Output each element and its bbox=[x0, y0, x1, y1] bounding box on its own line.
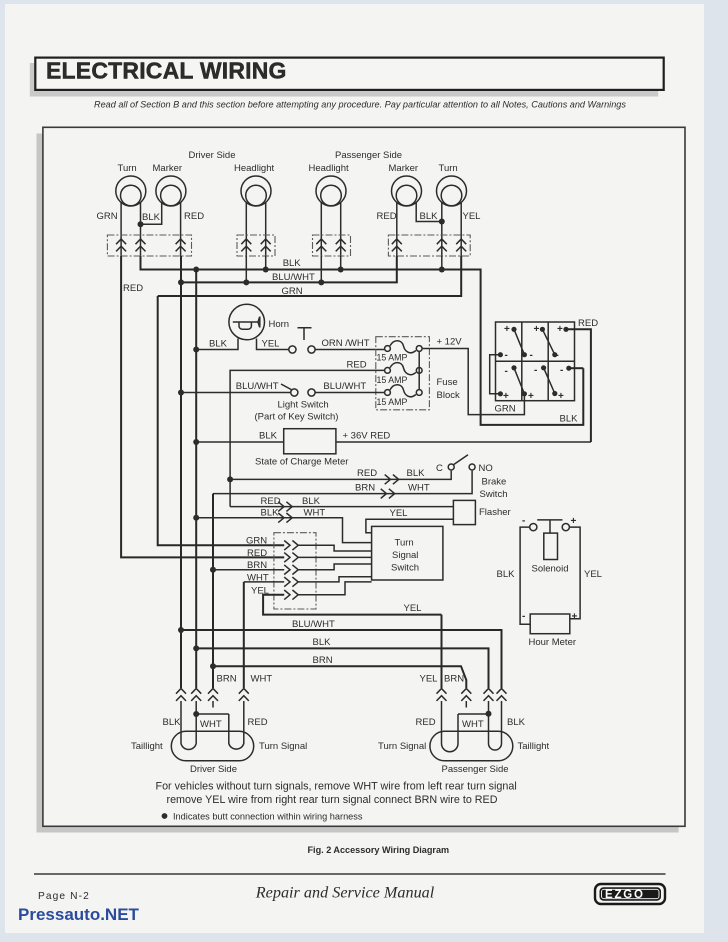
battery B6- BLK terminal bbox=[566, 366, 571, 371]
svg-text:BLU/WHT: BLU/WHT bbox=[236, 381, 279, 392]
svg-text:-: - bbox=[505, 366, 508, 377]
svg-text:-: - bbox=[522, 516, 525, 527]
butt connector BRN/WHT brake row bbox=[381, 489, 395, 499]
svg-text:BRN: BRN bbox=[313, 655, 333, 666]
wire RED trunk left bbox=[121, 256, 284, 557]
wire marker-P right to BLK jog bbox=[416, 202, 442, 222]
wire light switch left BLU/WHT bbox=[181, 392, 291, 394]
svg-text:+ 12V: + 12V bbox=[437, 337, 463, 348]
wire +12V to battery GRN bbox=[423, 349, 525, 415]
junction BRN low bbox=[210, 663, 216, 669]
svg-text:WHT: WHT bbox=[251, 674, 273, 685]
svg-text:Fuse: Fuse bbox=[437, 377, 458, 388]
svg-text:Switch: Switch bbox=[480, 489, 508, 500]
svg-text:YEL: YEL bbox=[463, 211, 481, 222]
svg-text:WHT: WHT bbox=[462, 719, 484, 730]
svg-text:Turn: Turn bbox=[118, 163, 137, 174]
svg-text:State of Charge Meter: State of Charge Meter bbox=[255, 457, 348, 468]
wire switch to fuse1 bbox=[315, 349, 384, 351]
svg-text:GRN: GRN bbox=[495, 404, 516, 415]
junction BLK bus headlight-P bbox=[338, 267, 344, 273]
fuse F3 15 AMP bbox=[385, 385, 423, 397]
rear lamp passenger stadium bbox=[430, 731, 513, 761]
junction BLK bus passenger bbox=[439, 267, 445, 273]
wire BRN tss to box bbox=[298, 564, 371, 570]
wire BRN trunk bbox=[212, 494, 214, 688]
connector box headlight driver bbox=[237, 235, 275, 256]
wire fuse2 RED to trunk bbox=[230, 370, 384, 506]
svg-text:Read all of Section B and this: Read all of Section B and this section b… bbox=[94, 100, 626, 110]
svg-text:YEL: YEL bbox=[262, 339, 280, 350]
svg-text:15 AMP: 15 AMP bbox=[377, 397, 408, 407]
svg-text:BLU/WHT: BLU/WHT bbox=[323, 381, 366, 392]
svg-text:Switch: Switch bbox=[391, 563, 419, 574]
svg-text:Horn: Horn bbox=[269, 319, 290, 330]
svg-text:Passenger Side: Passenger Side bbox=[442, 764, 509, 775]
svg-text:-: - bbox=[522, 611, 525, 622]
svg-text:BLK: BLK bbox=[163, 717, 182, 728]
svg-text:Driver Side: Driver Side bbox=[190, 764, 237, 775]
svg-text:BLK: BLK bbox=[209, 339, 228, 350]
butt connector rear driver BRN bbox=[208, 689, 218, 701]
wire headlight-P left bbox=[320, 202, 322, 256]
wire headlight-P right stub to BLK bus bbox=[340, 256, 342, 270]
butt connector rear passenger YEL bbox=[437, 689, 447, 701]
svg-text:+: + bbox=[534, 324, 540, 335]
svg-text:Driver Side: Driver Side bbox=[189, 150, 236, 161]
butt connector BLK front driver bbox=[136, 239, 146, 251]
svg-text:Taillight: Taillight bbox=[131, 741, 163, 752]
svg-text:Brake: Brake bbox=[482, 477, 507, 488]
flasher box U3 bbox=[453, 500, 475, 524]
svg-text:BLK: BLK bbox=[142, 212, 161, 223]
wire solenoid BLK to hour meter bbox=[520, 527, 530, 624]
svg-text:Flasher: Flasher bbox=[479, 507, 511, 518]
svg-text:RED: RED bbox=[184, 211, 204, 222]
junction light switch BLU/WHT bbox=[178, 390, 184, 396]
svg-text:RED: RED bbox=[357, 468, 377, 479]
wire horn YEL lead bbox=[257, 339, 289, 350]
svg-text:WHT: WHT bbox=[200, 719, 222, 730]
junction RED brake bbox=[227, 476, 233, 482]
svg-text:BLU/WHT: BLU/WHT bbox=[272, 272, 315, 283]
solenoid assembly bbox=[530, 520, 570, 560]
wire rear driver BLK down bbox=[180, 701, 182, 731]
svg-text:RED: RED bbox=[247, 548, 267, 559]
svg-text:ORN /WHT: ORN /WHT bbox=[322, 338, 370, 349]
svg-text:+: + bbox=[558, 391, 564, 402]
lamp Headlight driver bbox=[241, 176, 271, 206]
lamp Headlight passenger bbox=[316, 176, 346, 206]
wire turn-P left BLK bbox=[441, 202, 443, 256]
junction BLU/WHT bus headlight-D bbox=[243, 279, 249, 285]
wire BLK trunk bbox=[195, 270, 197, 689]
svg-text:+: + bbox=[504, 324, 510, 335]
battery pack box bbox=[496, 322, 575, 401]
svg-text:BLU/WHT: BLU/WHT bbox=[292, 619, 335, 630]
lamp Marker passenger bbox=[392, 176, 422, 206]
wire GRN trunk left bbox=[158, 296, 285, 545]
svg-text:Passenger Side: Passenger Side bbox=[335, 150, 402, 161]
butt connector rear driver BLK bbox=[176, 689, 186, 701]
wire YEL tss left to bus bbox=[263, 595, 441, 615]
hour meter box U5 bbox=[530, 614, 570, 634]
junction BLU/WHT low bbox=[178, 627, 184, 633]
wire battery BLK stub bbox=[569, 367, 584, 369]
lamp Turn passenger bbox=[437, 176, 467, 206]
wire headlight-P left stub to BLU/WHT bbox=[320, 256, 322, 282]
butt connector headlight-P right bbox=[336, 239, 346, 251]
svg-text:BLK: BLK bbox=[420, 211, 439, 222]
junction front BLK passenger bbox=[439, 219, 445, 225]
svg-text:Fig. 2 Accessory Wiring Diagr: Fig. 2 Accessory Wiring Diagram bbox=[308, 845, 450, 855]
wire WHT tss left bbox=[244, 581, 284, 583]
butt connector RED/BLK flasher row bbox=[278, 502, 292, 512]
wire light switch right to fuse3 bbox=[315, 392, 384, 394]
svg-text:Light Switch: Light Switch bbox=[278, 400, 329, 411]
wire YEL bus down bbox=[441, 615, 443, 688]
butt connector RED/BLK brake row bbox=[385, 475, 399, 485]
svg-text:(Part of Key Switch): (Part of Key Switch) bbox=[255, 412, 339, 423]
wire RED tss to box bbox=[298, 556, 371, 558]
svg-text:Turn Signal: Turn Signal bbox=[378, 741, 426, 752]
EZGO logo bbox=[595, 884, 665, 904]
svg-text:WHT: WHT bbox=[304, 508, 326, 519]
horn button switch bbox=[289, 328, 315, 353]
svg-text:Pressauto.NET: Pressauto.NET bbox=[18, 905, 140, 924]
wire RED to brake switch C bbox=[230, 471, 451, 480]
svg-text:Solenoid: Solenoid bbox=[532, 564, 569, 575]
svg-text:-: - bbox=[534, 365, 537, 376]
battery cell B5 bottom terminals bbox=[528, 365, 537, 402]
battery cell B6 bottom terminals bbox=[558, 365, 564, 402]
wire BLU/WHT trunk bbox=[180, 256, 182, 688]
wire fuse right pins tie bbox=[418, 352, 420, 389]
butt connector rear driver RED bbox=[239, 689, 249, 701]
svg-text:Marker: Marker bbox=[389, 163, 419, 174]
svg-text:YEL: YEL bbox=[404, 603, 422, 614]
wire headlight-P right bbox=[340, 202, 342, 256]
wire turn-D right BLK bbox=[140, 202, 142, 256]
wire turn-P left stub to BLK bus bbox=[441, 256, 443, 270]
svg-text:+: + bbox=[528, 391, 534, 402]
svg-text:-: - bbox=[505, 350, 508, 361]
wire marker-P left RED bbox=[396, 202, 398, 256]
wire YEL flasher to TSS bbox=[366, 519, 454, 532]
svg-text:Turn: Turn bbox=[395, 538, 414, 549]
butt connector YEL tss bbox=[284, 590, 298, 600]
svg-text:RED: RED bbox=[248, 717, 268, 728]
svg-text:WHT: WHT bbox=[408, 483, 430, 494]
junction BLK low bbox=[193, 645, 199, 651]
fuse block dashed box bbox=[376, 337, 430, 410]
butt connector WHT tss bbox=[284, 577, 298, 587]
wire BLK/WHT row bbox=[196, 518, 371, 543]
battery left loop B1- to B4+ bbox=[490, 352, 503, 396]
svg-text:Marker: Marker bbox=[153, 163, 183, 174]
junction front BLK driver bbox=[138, 221, 144, 227]
svg-text:BLK: BLK bbox=[407, 468, 426, 479]
battery jumper B2+ to B3- bbox=[540, 327, 558, 358]
svg-text:RED: RED bbox=[416, 717, 436, 728]
diagram box shadow bbox=[37, 134, 679, 833]
junction horn BLK bbox=[193, 347, 199, 353]
wire rear passenger BRN down bbox=[465, 701, 467, 708]
svg-text:+ 36V RED: + 36V RED bbox=[343, 431, 391, 442]
wire rear passenger RED down bbox=[441, 701, 443, 731]
wire GRN bus bbox=[158, 256, 462, 296]
junction BLU/WHT bus headlight-P bbox=[318, 279, 324, 285]
horn U1 bbox=[229, 304, 265, 340]
wire rear driver WHT jumper bbox=[196, 701, 229, 731]
svg-text:Turn Signal: Turn Signal bbox=[259, 741, 307, 752]
svg-text:EZGO: EZGO bbox=[605, 889, 645, 901]
junction BLK/WHT row bbox=[193, 515, 199, 521]
wire BRN low bus bbox=[213, 666, 466, 688]
svg-text:-: - bbox=[560, 365, 563, 376]
svg-text:15 AMP: 15 AMP bbox=[377, 375, 408, 385]
wire WHT tss to box bbox=[298, 577, 371, 582]
svg-text:BLK: BLK bbox=[313, 637, 332, 648]
junction BLK SOC bbox=[193, 439, 199, 445]
butt connector rear passenger BRN bbox=[461, 689, 471, 701]
svg-text:ELECTRICAL WIRING: ELECTRICAL WIRING bbox=[46, 58, 287, 84]
lamp Marker driver bbox=[156, 176, 186, 206]
wire rear driver BRN stub bbox=[212, 701, 214, 708]
svg-text:+: + bbox=[571, 516, 577, 527]
svg-text:Block: Block bbox=[437, 390, 460, 401]
junction BRN tss bbox=[210, 567, 216, 573]
junction BLK bus headlight-D bbox=[263, 267, 269, 273]
svg-text:BLK: BLK bbox=[507, 717, 526, 728]
wire horn BLK lead bbox=[196, 339, 238, 350]
battery B3+ RED terminal bbox=[563, 327, 568, 332]
wire battery RED to +36V bbox=[566, 329, 591, 442]
svg-text:BLK: BLK bbox=[497, 569, 516, 580]
battery cell B1 top terminals bbox=[504, 324, 510, 361]
battery jumper B1+ to B2- bbox=[511, 327, 527, 358]
state of charge meter box U2 bbox=[284, 429, 336, 454]
fuse F1 15 AMP bbox=[385, 341, 423, 353]
svg-text:Signal: Signal bbox=[392, 550, 418, 561]
wire rear driver RED down bbox=[243, 701, 245, 731]
wire turn-D left GRN bbox=[120, 202, 122, 256]
wire YEL tss right bbox=[298, 582, 371, 595]
butt connector YEL front passenger bbox=[456, 239, 466, 251]
battery cell B3 top terminals bbox=[556, 324, 564, 361]
svg-text:YEL: YEL bbox=[584, 569, 602, 580]
wire BRN to brake switch NO bbox=[213, 471, 472, 494]
svg-text:BLK: BLK bbox=[302, 496, 321, 507]
wire headlight-D left bbox=[245, 202, 247, 256]
svg-text:BRN: BRN bbox=[217, 674, 237, 685]
wire turn-P right YEL bbox=[460, 202, 462, 256]
svg-text:RED: RED bbox=[377, 211, 397, 222]
svg-text:Page N-2: Page N-2 bbox=[38, 891, 90, 902]
svg-text:For vehicles without turn sign: For vehicles without turn signals, remov… bbox=[156, 781, 517, 793]
wire GRN tss to box bbox=[298, 545, 371, 551]
butt connector headlight-P left bbox=[316, 239, 326, 251]
wire marker-D left to BLK jog bbox=[141, 202, 162, 224]
svg-text:-: - bbox=[530, 350, 533, 361]
svg-text:Turn: Turn bbox=[439, 163, 458, 174]
wire BRN tss left bbox=[213, 569, 284, 571]
note bullet bbox=[162, 813, 168, 819]
brake switch S1 bbox=[448, 455, 475, 470]
svg-text:Repair and Service Manual: Repair and Service Manual bbox=[255, 884, 435, 902]
connector box passenger front bbox=[388, 235, 470, 256]
wire BLK bus top bbox=[141, 256, 584, 425]
battery jumper B4- to B5+ bbox=[511, 365, 527, 396]
light switch bbox=[281, 384, 315, 396]
svg-text:15 AMP: 15 AMP bbox=[377, 353, 408, 363]
svg-text:RED: RED bbox=[261, 496, 281, 507]
butt connector headlight-D left bbox=[241, 239, 251, 251]
svg-text:Headlight: Headlight bbox=[234, 163, 274, 174]
svg-text:+: + bbox=[503, 391, 509, 402]
fuse F2 15 AMP bbox=[385, 363, 423, 375]
battery cell B4 bottom terminals bbox=[503, 366, 509, 402]
wire +36V RED from SOC to battery bbox=[336, 441, 591, 443]
butt connector GRN front driver bbox=[116, 239, 126, 251]
connector box driver front bbox=[107, 235, 191, 256]
TSS connector dashed box bbox=[274, 533, 316, 609]
wire BLU/WHT low bus bbox=[181, 630, 502, 688]
svg-text:RED: RED bbox=[347, 360, 367, 371]
svg-text:remove YEL wire from right rea: remove YEL wire from right rear turn sig… bbox=[167, 794, 498, 806]
wire headlight-D right stub to BLK bus bbox=[265, 256, 267, 270]
svg-text:YEL: YEL bbox=[420, 674, 438, 685]
svg-text:+: + bbox=[557, 324, 563, 335]
svg-text:RED: RED bbox=[578, 318, 598, 329]
junction BLK bus x196 bbox=[193, 267, 199, 273]
butt connector rear driver WHT bbox=[191, 689, 201, 701]
butt connector RED tss bbox=[284, 553, 298, 563]
svg-text:RED: RED bbox=[123, 283, 143, 294]
svg-text:Indicates butt connection with: Indicates butt connection within wiring … bbox=[173, 812, 363, 822]
diagram box bbox=[43, 127, 685, 826]
rear lamp driver stadium bbox=[171, 731, 253, 761]
svg-text:BLK: BLK bbox=[560, 414, 579, 425]
butt connector BLK front passenger bbox=[437, 239, 447, 251]
svg-text:+: + bbox=[572, 612, 578, 623]
wire headlight-D left stub to BLU/WHT bbox=[245, 256, 247, 282]
wire headlight-D right bbox=[265, 202, 267, 256]
svg-text:GRN: GRN bbox=[246, 536, 267, 547]
butt connector headlight-D right bbox=[261, 239, 271, 251]
title box bbox=[35, 58, 663, 90]
butt connector rear passenger WHT bbox=[484, 689, 494, 701]
svg-text:YEL: YEL bbox=[390, 508, 408, 519]
butt connector GRN tss bbox=[284, 541, 298, 551]
wire BLK to SOC meter bbox=[196, 441, 284, 443]
wire WHT trunk down bbox=[243, 582, 245, 688]
svg-text:BLK: BLK bbox=[259, 431, 278, 442]
svg-text:NO: NO bbox=[479, 463, 493, 474]
svg-text:Headlight: Headlight bbox=[309, 163, 349, 174]
junction rear driver WHT bbox=[193, 711, 199, 717]
lamp Turn driver bbox=[116, 176, 146, 206]
butt connector rear passenger BLK bbox=[497, 689, 507, 701]
butt connector RED front passenger bbox=[392, 239, 402, 251]
svg-text:GRN: GRN bbox=[97, 211, 118, 222]
svg-text:C: C bbox=[436, 463, 443, 474]
connector box headlight passenger bbox=[313, 235, 351, 256]
svg-text:Taillight: Taillight bbox=[518, 741, 550, 752]
wire RED/BLK row to flasher bbox=[230, 506, 453, 508]
svg-text:BLK: BLK bbox=[261, 508, 280, 519]
butt connector BRN tss bbox=[284, 565, 298, 575]
wire BLU/WHT bus bbox=[181, 256, 397, 282]
butt connector BLK/WHT row bbox=[278, 513, 292, 523]
svg-text:BRN: BRN bbox=[355, 483, 375, 494]
footer separator bbox=[34, 873, 666, 875]
svg-text:Hour Meter: Hour Meter bbox=[529, 637, 577, 648]
title box shadow bbox=[30, 63, 658, 97]
battery cell B2 top terminals bbox=[530, 324, 540, 361]
turn signal switch box U4 bbox=[372, 526, 443, 580]
junction BLU/WHT bus x181 bbox=[178, 279, 184, 285]
svg-text:BRN: BRN bbox=[444, 674, 464, 685]
svg-text:BLK: BLK bbox=[283, 258, 302, 269]
battery jumper B5- to B6+ bbox=[541, 365, 557, 396]
wire marker-D right RED bbox=[180, 202, 182, 256]
wire rear passenger WHT jumper bbox=[458, 701, 489, 731]
wire BLK low bus bbox=[196, 648, 488, 688]
wire solenoid YEL to hour meter bbox=[569, 527, 580, 619]
wire rear passenger BLK down bbox=[501, 701, 503, 731]
butt connector RED front driver bbox=[176, 239, 186, 251]
junction rear passenger WHT bbox=[486, 711, 492, 717]
